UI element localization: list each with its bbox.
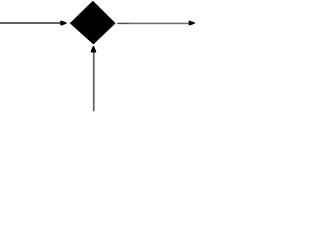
arrowhead: right edge [189,21,196,26]
wire: incoming edge from left [0,22,61,24]
wire: outgoing edge to right [117,23,189,25]
wire: incoming edge from bottom [93,53,95,112]
arrowhead: bottom edge into diamond [91,46,97,53]
arrowhead: left edge into diamond [60,21,67,26]
decision diamond node (solid black) [70,1,116,45]
